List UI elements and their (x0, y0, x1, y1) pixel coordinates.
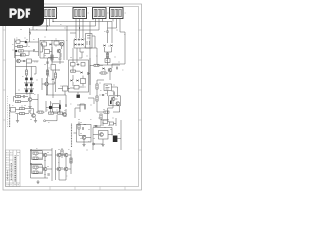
dark dot D1b (15, 50, 17, 52)
wire cluster A (15, 28, 43, 58)
diode grid D4d (30, 90, 33, 93)
wire cb2 (79, 122, 86, 136)
relay box K1 (86, 34, 93, 49)
box K3 (71, 63, 76, 67)
PDF badge text F (27, 10, 30, 18)
capacitor C3 (24, 95, 25, 98)
mid cluster: wire rails (40, 26, 67, 64)
resistor R27 (33, 152, 38, 154)
wire mid5 (46, 95, 66, 121)
wire bus from J2 (70, 19, 83, 39)
box A1 (42, 42, 47, 46)
transistor Q1 (17, 59, 21, 63)
diode X11 (102, 94, 105, 96)
wire bc2 (59, 178, 66, 180)
resistor R31 (70, 158, 72, 163)
wire p1 (108, 118, 117, 126)
connector J3 (93, 8, 107, 19)
resistor R16 (49, 112, 54, 114)
bottom small cluster: box SP2 (77, 125, 92, 143)
relay inner (87, 36, 91, 46)
box K4 (71, 70, 76, 72)
resistor R22 (96, 96, 98, 101)
wire rm4 (97, 80, 104, 112)
connector J4 (110, 8, 124, 19)
wire horizontal bus B (108, 27, 117, 29)
box RA3 (19, 50, 24, 52)
cluster rm3: enclosure box E5 (69, 60, 89, 92)
ground G6 (82, 145, 85, 147)
transistor Q18b (64, 167, 68, 171)
diode X9 (102, 68, 105, 70)
box M1 (51, 65, 56, 71)
wire cluster B (14, 92, 39, 112)
box K3b (81, 63, 85, 67)
transistor Q5 dark (49, 106, 52, 109)
diode grid D2 (25, 78, 28, 81)
title block text main (14, 156, 16, 182)
enclosure box E3 (52, 104, 59, 112)
box M2 (63, 86, 68, 91)
terminal T1 (44, 120, 46, 122)
small parts cluster: resistor R25 (78, 124, 80, 129)
node dot a (47, 25, 48, 26)
capacitor C2b (46, 62, 49, 63)
box RA2 (18, 45, 23, 47)
node dot d (30, 149, 31, 150)
tiny label specks (12, 13, 126, 176)
diode X13 (23, 60, 26, 62)
connector J2 (73, 8, 87, 19)
enclosure box E1 (32, 151, 43, 160)
wire cb (93, 120, 121, 150)
diode X7 (103, 45, 106, 47)
bottom big cluster: wire rails (31, 148, 56, 181)
transistor Q3b (63, 113, 67, 117)
transistor Q17 (64, 153, 68, 157)
diode X10 (52, 78, 55, 80)
wire mid4 (46, 100, 60, 112)
wire bs2 (61, 148, 63, 158)
capacitor C7 (65, 104, 66, 107)
resistor R6 (25, 70, 27, 75)
diode X18 (76, 80, 79, 82)
wire cluster C (16, 109, 36, 121)
wire bus from J1 (47, 19, 54, 31)
diode grid D4c (25, 90, 28, 93)
diode X15 (77, 64, 80, 66)
ground G1 (28, 107, 31, 109)
transistor Q7 (108, 68, 112, 72)
wire rm8 (80, 104, 86, 112)
capacitor C5 (59, 58, 62, 59)
wire rm3 (70, 48, 90, 95)
transistor Q18 (82, 136, 86, 140)
enclosure box E2 (32, 165, 43, 174)
ground G4 (36, 182, 39, 184)
right mid: diode bridge X1 (74, 39, 77, 41)
dark component F1 (113, 136, 118, 143)
transistor T3 (57, 49, 61, 53)
diode X12 (49, 43, 52, 45)
capacitor C8 (106, 31, 109, 32)
diode X2 (78, 39, 81, 41)
wire m1 (52, 70, 54, 98)
cluster C: small box SW1 (11, 108, 16, 113)
wire bus from J3 (96, 19, 103, 31)
wire bus from J4 (113, 19, 120, 33)
outer border frame (3, 4, 142, 190)
PDF badge text P (11, 10, 16, 18)
wire q6 (105, 47, 112, 58)
K5 inner marks (106, 86, 110, 90)
dark mark D9 (59, 105, 61, 110)
resistor R18 (106, 53, 108, 58)
inner border frame (6, 7, 139, 187)
diode X16 (80, 72, 83, 74)
diode grid D4 (25, 84, 28, 87)
transistor Q16 (57, 167, 61, 171)
terminal T2 (93, 143, 95, 145)
resistor R17 (58, 112, 63, 114)
ground G2 (34, 121, 37, 123)
connector J1 (43, 8, 57, 19)
wire vertical rail x90 (89, 22, 91, 86)
transistor Q11 (100, 133, 104, 137)
box K4b (81, 79, 86, 84)
cluster A: box RA1 (16, 40, 20, 43)
box K5 (104, 84, 112, 91)
resistor R11 (20, 113, 25, 115)
wire J4 to right chain (120, 32, 125, 45)
ground G3 (16, 121, 19, 123)
wire bottom cluster (38, 150, 71, 182)
ground G5 (101, 145, 104, 147)
zone tick marks (3, 30, 142, 190)
small box P2 (110, 122, 114, 125)
node dot e (30, 163, 31, 164)
cluster mid-low: resistor R26 (38, 111, 43, 113)
wire mid3 (56, 70, 60, 92)
PDF badge text D (19, 10, 24, 18)
vertical note text 2 (9, 104, 11, 127)
resistor R23 (104, 111, 109, 113)
wire rm7 (95, 119, 109, 126)
box A2 (54, 41, 59, 45)
rail x47 (47, 58, 49, 95)
box RA4 (20, 54, 25, 56)
resistor R20 (101, 72, 106, 74)
dark mark D11 (77, 95, 80, 98)
diode X8 (110, 45, 113, 47)
diode X6 (81, 44, 84, 46)
wire mid2 (42, 78, 54, 95)
resistor R24 (100, 114, 102, 119)
wire top cluster (40, 41, 64, 63)
transistor Q10 (116, 102, 120, 106)
resistor R12 (51, 55, 53, 60)
diode X3 (81, 39, 84, 41)
wire horizontal bus A (30, 22, 113, 31)
wire rm5 (108, 87, 118, 97)
node dot bus1 (46, 29, 47, 30)
vertical note text 1 (71, 124, 73, 148)
resistor R28 (33, 157, 38, 159)
title block text sub (10, 163, 12, 181)
transistor Q2 (28, 98, 32, 102)
wire right chain top (108, 22, 113, 44)
small box P1 (103, 120, 108, 124)
wire rm2 (90, 45, 125, 85)
wire diode chain (16, 67, 37, 94)
diode X5 (78, 44, 81, 46)
diode grid D4b (30, 84, 33, 87)
box A3 (45, 50, 50, 54)
transistor Q9 (111, 97, 115, 101)
transistor Q13 (43, 153, 47, 157)
capacitor C12 (83, 127, 84, 130)
diode X4 (74, 44, 77, 46)
capacitor C6 (55, 82, 56, 85)
wire chain2 (97, 48, 120, 65)
wire m2 (58, 89, 70, 96)
transistor T2 (60, 42, 64, 46)
cluster B: resistor R8 (16, 96, 21, 98)
wire n2 (75, 91, 114, 118)
node dot bus2 (52, 21, 53, 22)
transistor Q4 (45, 82, 49, 86)
capacitor C16 (87, 72, 88, 75)
diode D1 dark (25, 41, 27, 43)
diode grid D3 (30, 78, 33, 81)
transistor Q15 (57, 153, 61, 157)
transistor Q14 (43, 167, 47, 171)
capacitor C1b (34, 49, 35, 52)
wire Q1 (16, 50, 39, 95)
wire rm6 (97, 99, 120, 120)
enclosure box E4 (109, 96, 121, 106)
diode X17 (70, 80, 73, 82)
title block cell marks (6, 153, 19, 185)
capacitor C4 (29, 110, 30, 113)
transistor Q3 (32, 114, 36, 118)
small box N1 (105, 59, 110, 63)
wire right mid (74, 36, 97, 58)
PDF badge (0, 0, 44, 26)
dashed line (7, 96, 9, 128)
wire ml (36, 111, 45, 113)
capacitor C2 (21, 54, 22, 57)
resistor R7b (46, 70, 48, 75)
resistor R9 (16, 101, 21, 103)
resistor R5 (27, 59, 32, 63)
title block outline (6, 150, 21, 187)
resistor R21 (96, 84, 98, 89)
capacitor C11 (85, 107, 86, 110)
capacitor C1 (30, 32, 31, 35)
resistor R30 (33, 171, 38, 173)
cluster low-right: box SP1 (99, 131, 109, 140)
capacitor C15 (114, 92, 115, 95)
resistor R15 (55, 73, 57, 78)
box K4c (74, 86, 79, 90)
title block text small (7, 171, 9, 181)
resistor R29 (33, 166, 38, 168)
capacitor C10 (117, 67, 118, 70)
resistor R10 (20, 108, 25, 110)
capacitor C13 (48, 173, 49, 176)
wire mid1 (52, 53, 64, 64)
dark mark D10 (110, 101, 112, 105)
diode X14 (95, 125, 98, 127)
wire bs (74, 133, 92, 145)
cluster rm2: resistor R19 (94, 64, 99, 66)
small parts: resistor R32 (61, 150, 63, 155)
node dot b (79, 27, 80, 28)
